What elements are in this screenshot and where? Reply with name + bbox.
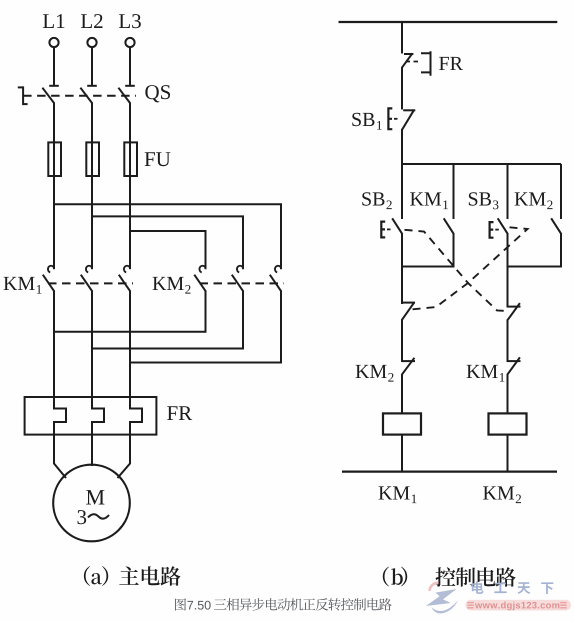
wire L2 to QS [91, 47, 93, 85]
label coil KM2 [483, 486, 521, 503]
thermal relay FR NC contact [402, 51, 431, 76]
wire KM1 pole 1 to FR heater [53, 291, 55, 398]
wire L3 to QS [129, 47, 131, 85]
fuse FU3 [124, 142, 137, 177]
label FU [145, 152, 171, 166]
coil KM1 [383, 413, 421, 434]
wire branch split top [402, 163, 561, 165]
interlock linkage SB2 to right NC (dashed) [405, 230, 509, 311]
terminal L1 [43, 14, 64, 47]
wire KM2 pole3 to L3 node [130, 291, 281, 363]
wire KM2 aux branch upper [560, 164, 562, 219]
wire KM1 aux branch upper [453, 164, 455, 219]
wire KM1 pole 2 to FR heater [91, 291, 93, 398]
wire KM2 NC to coil KM1 [401, 374, 403, 414]
fuse FU1 [48, 142, 61, 177]
label KM2 [153, 277, 191, 294]
wire SB3 NC to KM2 NC [401, 320, 403, 363]
contactor KM2 main contact pole 1 [194, 266, 206, 292]
switch QS pole 3 [118, 86, 134, 104]
label FR (heater) [167, 406, 192, 420]
wire branch L2 to KM2 pole2 [92, 216, 243, 269]
start button SB3 (NO) [490, 218, 508, 237]
wire right branch to SB2 NC [507, 266, 509, 308]
wire KM2 pole2 to L2 node [92, 291, 243, 349]
contactor KM1 main contact pole 3 [119, 266, 131, 292]
button SB2 NC contact (in KM2 branch) [507, 303, 520, 320]
FR heater element phase 2 [92, 397, 104, 436]
contactor KM2 main contact pole 2 [232, 266, 244, 292]
wire QS pole 3 to fuse [129, 103, 131, 144]
wire coil KM2 to bottom bus [507, 435, 509, 472]
label QS [145, 85, 170, 102]
wire FR to motor W [118, 435, 131, 478]
wire branch L1 to KM2 pole3 [54, 204, 281, 269]
motor M 3~ [53, 465, 130, 542]
contactor KM2 main contacts linkage (dashed) [200, 282, 285, 284]
watermark logo [426, 583, 458, 614]
wire QS pole 1 to fuse [53, 103, 55, 144]
contactor KM1 main contacts linkage (dashed) [48, 282, 133, 284]
FR heater element phase 1 [54, 397, 66, 436]
terminal L2 [81, 14, 103, 47]
label KM1 aux [410, 192, 448, 209]
switch QS linkage (dashed) [23, 95, 136, 97]
label SB2 [362, 192, 391, 209]
label FR (contact) [439, 57, 463, 70]
watermark url banner [465, 600, 571, 611]
thermal relay FR heater box [25, 397, 157, 435]
label SB3 [469, 192, 499, 209]
wire bus to FR contact [401, 22, 403, 54]
button SB3 NC contact (in KM1 branch) [402, 302, 415, 320]
caption (a) main circuit [84, 566, 181, 586]
start button SB2 (NO) [381, 218, 402, 237]
wire SB3 branch upper [507, 164, 509, 219]
wire FR contact to SB1 [401, 67, 403, 109]
wire bottom bus [342, 471, 557, 473]
terminal L3 [119, 14, 141, 47]
wire merge SB3/KM2 [508, 266, 562, 268]
wire branch L3 to KM2 pole1 [130, 231, 206, 269]
label SB1 [352, 113, 381, 130]
wire FR to motor V [91, 435, 93, 466]
wire coil KM1 to bottom bus [401, 435, 403, 472]
coil KM2 [489, 413, 527, 434]
wire left branch to SB3 NC [401, 266, 403, 304]
wire L2 phase fuse to KM1 pole2 [91, 176, 93, 270]
wire KM2 aux lower [560, 234, 562, 268]
wire KM1 aux lower [453, 234, 455, 268]
fuse FU2 [86, 142, 99, 177]
FR heater element phase 3 [130, 397, 142, 436]
contact KM1 interlock NC [507, 357, 520, 374]
contact KM2 auxiliary NO [551, 218, 561, 234]
interlock linkage SB3 to left NC (dashed) [413, 227, 528, 309]
wire QS pole 2 to fuse [91, 103, 93, 144]
contactor KM1 main contact pole 2 [81, 266, 93, 292]
wire SB2 NC to KM1 NC [507, 320, 509, 363]
contact KM2 interlock NC [402, 358, 415, 375]
wire FR to motor U [54, 435, 66, 478]
wire KM1 NC to coil KM2 [507, 374, 509, 414]
wire KM1 pole 3 to FR heater [129, 291, 131, 398]
contactor KM1 main contact pole 1 [43, 266, 55, 292]
wire L1 phase fuse to KM1 pole1 [53, 176, 55, 270]
watermark site name [472, 581, 554, 594]
contact KM1 auxiliary NO [444, 218, 454, 234]
switch QS pole 1 [42, 86, 58, 104]
caption (b) control circuit [383, 567, 516, 587]
label KM2 interlock [356, 365, 394, 382]
contactor KM2 main contact pole 3 [270, 266, 282, 292]
wire L3 phase fuse to KM1 pole3 [129, 176, 131, 270]
figure caption [175, 598, 392, 611]
label KM2 aux [515, 192, 553, 209]
wire L1 to QS [53, 47, 55, 85]
wire merge SB2/KM1 [402, 266, 454, 268]
wire SB1 to branch split [401, 129, 403, 165]
wire KM2 pole1 to L1 node [54, 291, 206, 332]
switch QS handle [18, 86, 28, 105]
switch QS pole 2 [80, 86, 96, 104]
wire SB2 branch upper [401, 164, 403, 219]
label coil KM1 [379, 486, 417, 503]
wire SB3 lower [507, 234, 509, 268]
stop button SB1 (NC) [388, 108, 415, 129]
label KM1 interlock [467, 365, 505, 382]
wire SB2 lower [401, 234, 403, 268]
wire top bus [339, 21, 558, 23]
label KM1 [4, 277, 42, 294]
